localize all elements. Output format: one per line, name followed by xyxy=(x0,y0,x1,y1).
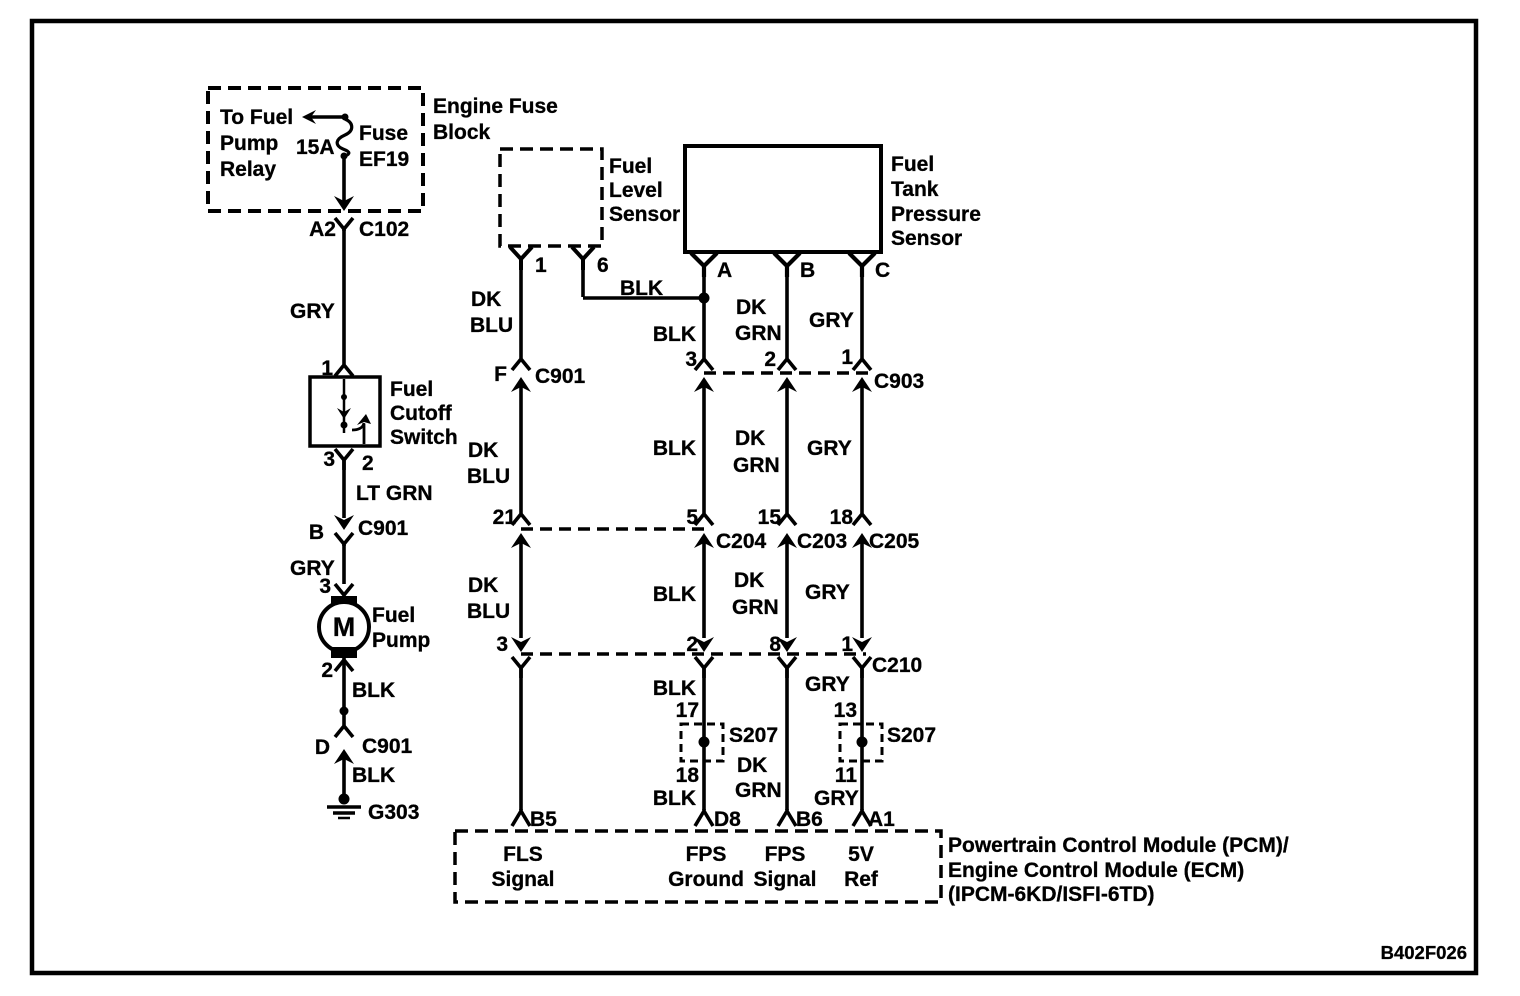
svg-text:C: C xyxy=(875,259,890,282)
svg-text:BLK: BLK xyxy=(653,323,696,346)
svg-text:BLK: BLK xyxy=(352,679,395,702)
svg-text:BLU: BLU xyxy=(467,600,510,623)
svg-text:BLU: BLU xyxy=(470,314,513,337)
svg-text:BLK: BLK xyxy=(653,787,696,810)
svg-text:BLU: BLU xyxy=(467,465,510,488)
svg-text:D: D xyxy=(315,736,330,759)
svg-text:A2: A2 xyxy=(309,218,336,241)
svg-text:DK: DK xyxy=(737,754,767,777)
svg-text:BLK: BLK xyxy=(653,437,696,460)
svg-text:BLK: BLK xyxy=(352,764,395,787)
svg-text:GRY: GRY xyxy=(814,787,859,810)
svg-text:Signal: Signal xyxy=(753,868,816,891)
svg-text:DK: DK xyxy=(471,288,501,311)
svg-text:Pump: Pump xyxy=(220,132,278,155)
svg-text:1: 1 xyxy=(841,346,853,369)
svg-text:Switch: Switch xyxy=(390,426,458,449)
svg-text:To Fuel: To Fuel xyxy=(220,106,293,129)
svg-text:Ground: Ground xyxy=(668,868,744,891)
svg-text:Pressure: Pressure xyxy=(891,203,981,226)
svg-text:Cutoff: Cutoff xyxy=(390,402,453,425)
svg-text:3: 3 xyxy=(319,575,331,598)
svg-text:Pump: Pump xyxy=(372,629,430,652)
svg-text:DK: DK xyxy=(736,296,766,319)
svg-text:Fuel: Fuel xyxy=(891,153,934,176)
svg-text:GRY: GRY xyxy=(805,581,850,604)
svg-text:G303: G303 xyxy=(368,801,419,824)
svg-text:BLK: BLK xyxy=(653,583,696,606)
svg-text:B6: B6 xyxy=(796,808,823,831)
svg-text:DK: DK xyxy=(468,439,498,462)
svg-text:18: 18 xyxy=(676,764,700,787)
svg-text:C204: C204 xyxy=(716,530,767,553)
svg-text:Block: Block xyxy=(433,121,491,144)
svg-text:B: B xyxy=(800,259,815,282)
svg-text:GRY: GRY xyxy=(809,309,854,332)
svg-text:15A: 15A xyxy=(296,136,335,159)
svg-text:13: 13 xyxy=(834,699,857,722)
svg-text:Fuel: Fuel xyxy=(609,155,652,178)
svg-text:DK: DK xyxy=(735,427,765,450)
svg-text:DK: DK xyxy=(734,569,764,592)
svg-text:GRN: GRN xyxy=(735,779,782,802)
svg-text:Powertrain Control Module (PCM: Powertrain Control Module (PCM)/ xyxy=(948,834,1289,857)
svg-text:A: A xyxy=(717,259,732,282)
svg-text:GRN: GRN xyxy=(733,454,780,477)
svg-text:Engine Fuse: Engine Fuse xyxy=(433,95,558,118)
svg-text:GRY: GRY xyxy=(807,437,852,460)
svg-text:S207: S207 xyxy=(887,724,936,747)
svg-text:2: 2 xyxy=(764,348,776,371)
svg-text:(IPCM-6KD/ISFI-6TD): (IPCM-6KD/ISFI-6TD) xyxy=(948,883,1155,906)
svg-text:C903: C903 xyxy=(874,370,924,393)
svg-text:17: 17 xyxy=(676,699,699,722)
svg-text:B: B xyxy=(309,521,324,544)
svg-text:Relay: Relay xyxy=(220,158,276,181)
svg-text:Fuel: Fuel xyxy=(390,378,433,401)
svg-text:2: 2 xyxy=(321,659,333,682)
svg-text:5V: 5V xyxy=(848,843,874,866)
svg-text:GRN: GRN xyxy=(732,596,779,619)
svg-text:18: 18 xyxy=(830,506,854,529)
svg-text:A1: A1 xyxy=(868,808,895,831)
svg-text:2: 2 xyxy=(362,452,374,475)
svg-text:B5: B5 xyxy=(530,808,557,831)
svg-text:DK: DK xyxy=(468,574,498,597)
svg-text:C901: C901 xyxy=(535,365,586,388)
svg-text:3: 3 xyxy=(496,633,508,656)
svg-text:B402F026: B402F026 xyxy=(1381,942,1467,963)
svg-text:FLS: FLS xyxy=(503,843,543,866)
svg-text:C901: C901 xyxy=(362,735,413,758)
svg-text:15: 15 xyxy=(758,506,782,529)
svg-text:Fuse: Fuse xyxy=(359,122,408,145)
svg-text:Signal: Signal xyxy=(491,868,554,891)
svg-text:BLK: BLK xyxy=(653,677,696,700)
svg-text:D8: D8 xyxy=(714,808,741,831)
svg-text:C901: C901 xyxy=(358,517,409,540)
svg-text:1: 1 xyxy=(535,254,547,277)
svg-text:Ref: Ref xyxy=(844,868,879,891)
svg-text:FPS: FPS xyxy=(686,843,727,866)
svg-text:Sensor: Sensor xyxy=(891,227,962,250)
svg-text:GRN: GRN xyxy=(735,322,782,345)
svg-text:F: F xyxy=(494,363,507,386)
svg-text:C210: C210 xyxy=(872,654,922,677)
svg-text:Level: Level xyxy=(609,179,663,202)
svg-text:BLK: BLK xyxy=(620,277,663,300)
svg-text:Engine Control Module (ECM): Engine Control Module (ECM) xyxy=(948,859,1244,882)
svg-text:3: 3 xyxy=(323,448,335,471)
svg-text:6: 6 xyxy=(597,254,609,277)
svg-text:C203: C203 xyxy=(797,530,847,553)
svg-text:GRY: GRY xyxy=(805,673,850,696)
svg-text:11: 11 xyxy=(835,764,858,787)
svg-text:GRY: GRY xyxy=(290,300,335,323)
svg-text:C102: C102 xyxy=(359,218,409,241)
svg-text:FPS: FPS xyxy=(765,843,806,866)
svg-text:EF19: EF19 xyxy=(359,148,409,171)
svg-text:M: M xyxy=(333,612,356,642)
svg-text:LT GRN: LT GRN xyxy=(356,482,433,505)
svg-text:Tank: Tank xyxy=(891,178,939,201)
svg-text:C205: C205 xyxy=(869,530,920,553)
svg-text:S207: S207 xyxy=(729,724,778,747)
svg-text:Sensor: Sensor xyxy=(609,203,680,226)
svg-text:Fuel: Fuel xyxy=(372,604,415,627)
